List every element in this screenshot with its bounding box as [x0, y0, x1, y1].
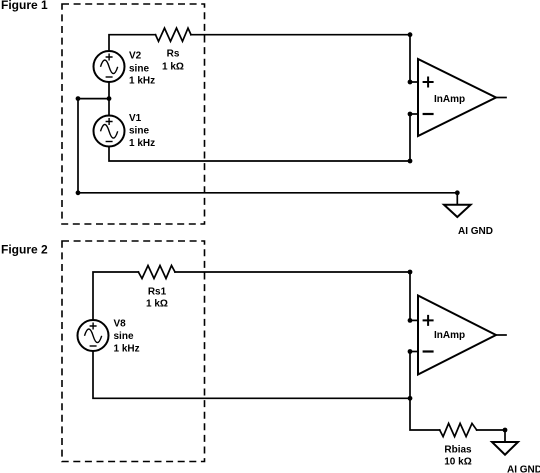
label Rs1 value [146, 287, 168, 310]
label V1 value [129, 113, 155, 149]
wire output [496, 334, 506, 336]
svg-text:1 kHz: 1 kHz [114, 344, 140, 355]
wire V8 bottom [93, 351, 410, 398]
label V2 value [129, 51, 155, 87]
source V1 [94, 116, 125, 147]
op-amp U1 InAmp [418, 59, 496, 136]
svg-text:V2: V2 [129, 51, 142, 62]
wire bottom to ground [78, 192, 457, 194]
svg-text:1 kHz: 1 kHz [129, 76, 155, 87]
label V8 value [114, 319, 140, 355]
junction corner top [408, 32, 413, 37]
wire ground stub [504, 430, 506, 442]
label Rs value [162, 48, 184, 72]
svg-text:1 kHz: 1 kHz [129, 138, 155, 149]
wire +input stub [410, 81, 418, 83]
svg-text:1 kΩ: 1 kΩ [146, 299, 168, 310]
svg-text:1 kΩ: 1 kΩ [162, 62, 184, 73]
junction -input [408, 112, 413, 117]
wire Rs1 to +input column [175, 271, 410, 273]
junction ground [503, 428, 508, 433]
svg-text:Rs: Rs [167, 48, 180, 59]
svg-text:V1: V1 [129, 113, 142, 124]
wire -input stub [410, 351, 418, 353]
svg-text:Rbias: Rbias [444, 445, 472, 456]
resistor Rs [156, 28, 192, 41]
wire up to -input [409, 114, 411, 161]
junction corner [408, 159, 413, 164]
source V8 [78, 320, 109, 351]
svg-text:InAmp: InAmp [434, 94, 465, 105]
wire +input stub [410, 319, 418, 321]
wire output [496, 97, 506, 99]
op-amp U2 InAmp [418, 296, 496, 375]
junction -input [408, 349, 413, 354]
ground AI GND (Figure 2) [492, 442, 518, 455]
svg-text:sine: sine [114, 331, 134, 342]
svg-text:Rs1: Rs1 [148, 287, 167, 298]
dashed source box (Figure 2) [62, 241, 205, 462]
junction corner top [408, 270, 413, 275]
ground AI GND (Figure 1) [444, 205, 471, 217]
wire -input column down to Rbias [410, 352, 440, 431]
svg-text:Figure 1: Figure 1 [1, 0, 48, 12]
svg-text:V8: V8 [114, 319, 127, 330]
wire left ground branch [77, 99, 79, 193]
dashed source box (Figure 1) [62, 4, 205, 224]
wire Rbias to ground [477, 429, 505, 431]
svg-text:sine: sine [129, 64, 149, 75]
junction +input [408, 318, 413, 323]
junction mid [107, 96, 112, 101]
wire junction bar [78, 98, 109, 100]
wire Rs to +input column [191, 34, 410, 36]
junction ground [455, 190, 460, 195]
junction +input [408, 80, 413, 85]
wire V8 top to resistor Rs1 [93, 272, 138, 320]
junction left [76, 96, 81, 101]
resistor Rbias [440, 423, 477, 436]
label Rbias value [444, 445, 472, 468]
source V2 [94, 51, 125, 82]
junction corner left [76, 190, 81, 195]
wire -input stub [410, 113, 418, 115]
wire down to +input [409, 35, 411, 82]
wire to V1 top [108, 99, 110, 116]
wire ground stub [456, 193, 458, 205]
wire V2 bottom to mid junction [108, 82, 110, 99]
svg-text:sine: sine [129, 126, 149, 137]
svg-text:AI GND: AI GND [507, 465, 540, 473]
svg-text:10 kΩ: 10 kΩ [444, 457, 471, 468]
svg-text:Figure 2: Figure 2 [1, 243, 48, 257]
wire V2 top to resistor Rs [109, 35, 156, 51]
wire down to +input [409, 272, 411, 320]
junction bottom [408, 396, 413, 401]
resistor Rs1 [138, 266, 175, 279]
svg-text:AI GND: AI GND [458, 226, 493, 237]
svg-text:InAmp: InAmp [434, 330, 465, 341]
wire V1 bottom to -input column [109, 147, 410, 162]
